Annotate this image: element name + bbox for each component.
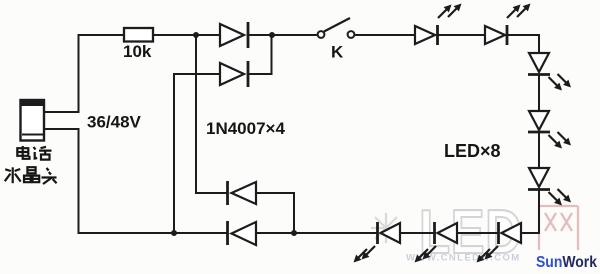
svg-text:10k: 10k [123, 42, 152, 61]
wire plug bottom rail [44, 129, 226, 233]
wire D4 to node D [256, 232, 294, 234]
diode D3 [228, 181, 257, 205]
wires and circuit ink [44, 35, 539, 233]
wire switch to LED1 [355, 34, 416, 36]
wire bottom LED6 to node D [294, 232, 378, 234]
wire LED2 to right corner [507, 35, 539, 53]
watermark [371, 198, 578, 267]
LED5 [528, 168, 550, 190]
diode D4 [228, 221, 257, 245]
switch K [318, 18, 355, 38]
node D junction dot [291, 230, 297, 236]
LED1 [415, 25, 438, 45]
wire D2 to node B [249, 36, 272, 74]
node C junction dot [171, 230, 177, 236]
wire top rail left [44, 35, 124, 112]
LED8 [499, 222, 522, 244]
svg-text:LED×8: LED×8 [444, 141, 501, 161]
wire LED1 to LED2 [438, 34, 485, 36]
resistor R 10k [124, 28, 153, 42]
label 电话 (drawn strokes) [17, 146, 51, 160]
svg-text:36/48V: 36/48V [87, 113, 142, 132]
LED2 [485, 25, 507, 45]
wire right column LED3-LED4 [538, 75, 540, 111]
diode D2 [220, 61, 248, 87]
LED3 [528, 53, 550, 75]
node A junction dot [193, 32, 199, 38]
label 水晶头 (drawn strokes) [5, 167, 57, 184]
wire bottom LED7-LED6 [401, 232, 436, 234]
wire node C to D2 [174, 74, 219, 232]
wire LED4-LED5 [538, 132, 540, 168]
wire D3 out to node D [256, 193, 294, 232]
wire resistor to node A [153, 34, 219, 36]
wire node A down to D3 [196, 36, 226, 193]
svg-text:1N4007×4: 1N4007×4 [206, 119, 285, 138]
plug 电话水晶头 [20, 100, 45, 141]
svg-text:SunWork: SunWork [536, 254, 597, 271]
LED7 [435, 222, 458, 244]
wire LED5 to bottom corner [521, 190, 539, 233]
node B junction dot [269, 32, 275, 38]
wire bottom LED8-LED7 [458, 232, 499, 234]
wire node A to switch [249, 34, 318, 36]
svg-text:K: K [331, 43, 344, 62]
LED4 [528, 111, 550, 132]
diode D1 [220, 22, 248, 48]
LED6 [378, 222, 401, 244]
